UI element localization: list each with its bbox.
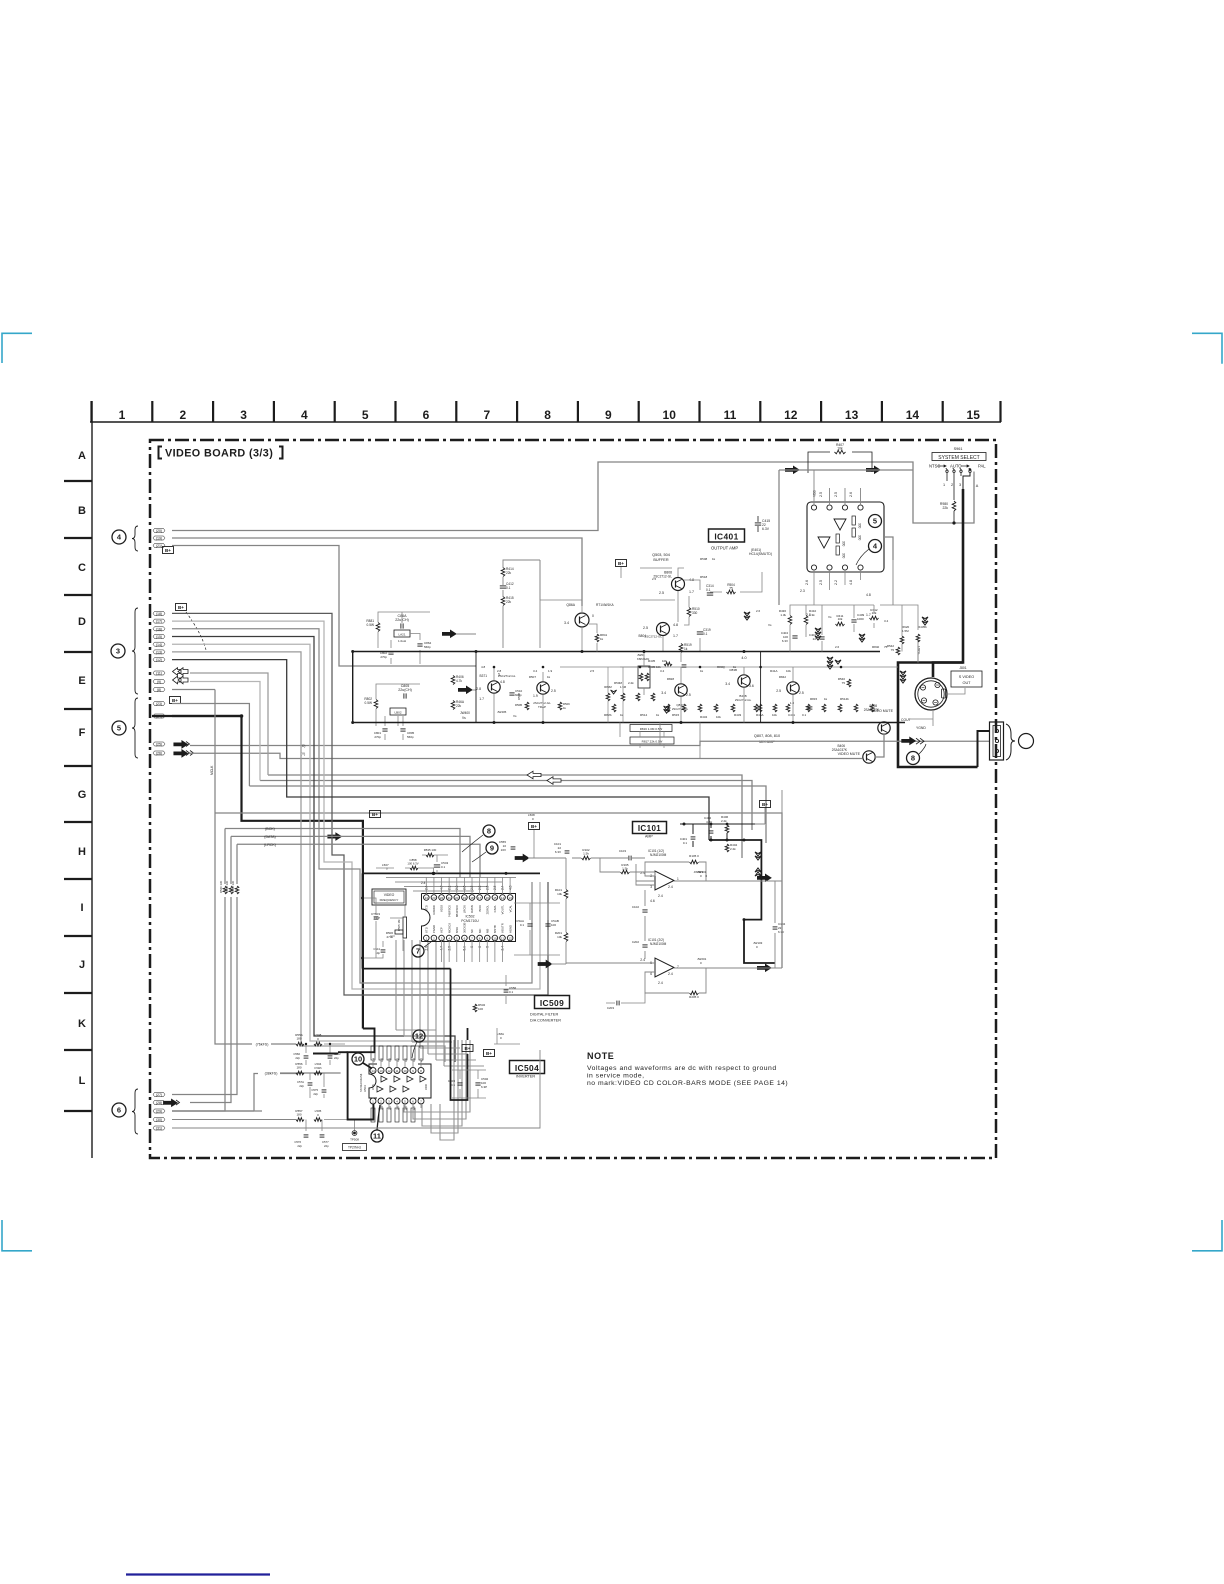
IC509 label box	[535, 996, 570, 1009]
node mark 4 at IC401	[869, 540, 882, 553]
svg-text:8: 8	[487, 827, 491, 836]
svg-text:1.9: 1.9	[548, 669, 553, 673]
svg-text:3.4: 3.4	[660, 669, 665, 673]
svg-text:F: F	[79, 727, 86, 739]
svg-text:24: 24	[425, 896, 429, 900]
svg-text:2.5: 2.5	[551, 689, 556, 693]
svg-text:D/A CONVERTER: D/A CONVERTER	[530, 1019, 561, 1023]
svg-text:B+: B+	[165, 548, 171, 553]
wire arrows run	[779, 469, 913, 471]
resistor R504 75	[727, 590, 736, 594]
svg-text:180: 180	[296, 1066, 301, 1070]
wire heavy right ic504 a	[451, 969, 468, 1100]
wire chain R414	[503, 560, 540, 648]
wire heavy right ic504 b	[467, 1028, 469, 1040]
svg-text:L: L	[79, 1075, 86, 1087]
IC504 inverter triangles	[381, 1076, 387, 1082]
svg-text:2SC2712-GL: 2SC2712-GL	[644, 635, 662, 639]
wire heavy into block	[978, 731, 990, 767]
svg-text:10k: 10k	[838, 617, 843, 621]
resistor R406 4.7k	[451, 676, 455, 685]
svg-text:5: 5	[873, 517, 877, 526]
svg-text:2.6: 2.6	[835, 645, 840, 649]
extra caps mix band	[808, 706, 813, 708]
svg-text:NC: NC	[470, 929, 474, 933]
svg-text:22p: 22p	[299, 1084, 304, 1088]
svg-text:BUFFER: BUFFER	[653, 558, 668, 562]
extra resistors row D right	[900, 636, 904, 644]
svg-text:VD03: VD03	[440, 905, 444, 912]
svg-text:2.4: 2.4	[658, 894, 663, 898]
svg-text:4.6: 4.6	[650, 899, 655, 903]
svg-text:TP508: TP508	[350, 1138, 359, 1142]
svg-text:2.4: 2.4	[668, 885, 673, 889]
svg-text:6.3V: 6.3V	[555, 850, 561, 854]
svg-text:B+: B+	[618, 561, 624, 566]
node mark 8 bottom	[907, 752, 920, 765]
chain R414 C412 R415	[501, 568, 505, 577]
capacitor C802 270p	[388, 651, 393, 653]
svg-text:NJM2100M: NJM2100M	[650, 853, 667, 857]
svg-text:VOUTL: VOUTL	[501, 905, 505, 915]
connector CN group 4	[112, 530, 126, 544]
svg-text:2.5: 2.5	[799, 691, 804, 695]
node mark 10	[352, 1053, 364, 1065]
svg-text:LRCKI: LRCKI	[463, 905, 467, 913]
signal arrow on data wire	[328, 833, 342, 841]
resistor R165 1.5k	[621, 870, 630, 874]
capacitor C555	[511, 846, 516, 848]
resistor R410 1.3k	[804, 616, 808, 625]
wire opamp2 loop	[566, 963, 756, 993]
svg-text:0: 0	[386, 867, 388, 871]
wire mid verticals ic101	[566, 858, 645, 964]
wire heavy zig to IC504	[348, 1029, 375, 1120]
title VIDEO BOARD (3/3)	[159, 447, 163, 459]
wire data	[231, 836, 470, 877]
svg-text:AUTO: AUTO	[950, 464, 962, 469]
svg-text:OUT: OUT	[962, 681, 971, 685]
IC504 top pin row	[370, 1068, 376, 1074]
svg-text:1.9: 1.9	[533, 694, 538, 698]
svg-text:(LRCK): (LRCK)	[264, 843, 276, 847]
svg-text:R507: R507	[529, 675, 537, 679]
svg-text:1k: 1k	[824, 697, 828, 701]
svg-text:8: 8	[420, 1069, 422, 1073]
svg-text:2.2: 2.2	[834, 580, 838, 585]
IC504 package outline	[369, 1064, 377, 1098]
svg-text:BCKI: BCKI	[478, 905, 482, 912]
signal arrow video in	[442, 630, 456, 638]
svg-text:3: 3	[441, 937, 443, 941]
svg-text:17: 17	[478, 896, 482, 900]
resistor R105 0	[690, 860, 699, 864]
svg-text:TRAP: TRAP	[538, 705, 546, 709]
svg-text:R41A: R41A	[770, 669, 778, 673]
svg-text:10k: 10k	[557, 935, 562, 939]
transistor Q804 buffer	[657, 623, 670, 636]
signal arrow chroma out	[902, 737, 916, 745]
svg-text:R550 130: R550 130	[225, 880, 229, 893]
svg-text:A: A	[976, 484, 979, 488]
svg-text:10k: 10k	[837, 447, 843, 451]
svg-text:1.8: 1.8	[790, 701, 795, 705]
svg-text:R50B: R50B	[517, 693, 521, 700]
svg-text:300: 300	[842, 541, 846, 547]
wire mid cluster	[790, 605, 874, 652]
svg-text:AGND: AGND	[508, 925, 512, 933]
svg-text:R551 130: R551 130	[231, 880, 235, 893]
svg-text:Vs: Vs	[768, 623, 772, 627]
wire pin20 to system select	[172, 462, 974, 531]
svg-text:9: 9	[412, 1069, 414, 1073]
svg-text:270p: 270p	[374, 735, 381, 739]
IC401 bottom pins	[811, 565, 816, 570]
svg-text:B+: B+	[531, 824, 537, 829]
external circle	[1019, 734, 1034, 749]
resistor R102 1.5k	[582, 856, 591, 860]
svg-text:6.3V: 6.3V	[762, 527, 770, 531]
svg-text:R434: R434	[700, 715, 708, 719]
wire R407 loop	[808, 452, 872, 473]
transistor Q808 buffer	[672, 578, 685, 591]
svg-text:1: 1	[425, 937, 427, 941]
svg-text:5: 5	[117, 724, 121, 733]
wire IC401 out right	[884, 537, 893, 560]
svg-text:R83Q: R83Q	[717, 665, 726, 669]
capacitor C319	[697, 631, 703, 633]
svg-text:B+: B+	[172, 698, 178, 703]
svg-text:D: D	[78, 616, 86, 628]
svg-text:B: B	[78, 505, 86, 517]
arrow left rail1	[527, 771, 541, 779]
svg-text:R508: R508	[700, 557, 708, 561]
capacitor C503	[457, 1082, 462, 1084]
svg-text:75: 75	[729, 587, 733, 591]
svg-text:560p: 560p	[424, 645, 431, 649]
svg-text:0.1: 0.1	[520, 923, 525, 927]
svg-text:2.2k: 2.2k	[730, 847, 736, 851]
svg-text:2SC2712-GL: 2SC2712-GL	[735, 698, 752, 702]
wire tp508 stub	[354, 1120, 356, 1131]
svg-text:0: 0	[700, 961, 702, 965]
svg-text:FREQUENCY: FREQUENCY	[380, 898, 399, 902]
svg-text:8B4FSC0: 8B4FSC0	[455, 905, 459, 918]
svg-text:9: 9	[605, 408, 612, 422]
wire loop descents below IC502	[396, 940, 484, 1066]
wire switch contact stubs	[946, 473, 948, 481]
wire ic101 input	[572, 858, 655, 876]
svg-text:R518: R518	[700, 575, 708, 579]
B+ supply above group3	[176, 604, 187, 611]
svg-text:4.8: 4.8	[481, 665, 486, 669]
svg-text:10k: 10k	[716, 715, 721, 719]
wire jw61	[620, 652, 658, 696]
svg-text:XT1I: XT1I	[425, 927, 429, 933]
components 38k row	[296, 1071, 304, 1075]
svg-text:R817 22k 0.5W: R817 22k 0.5W	[642, 739, 663, 743]
svg-text:2.5: 2.5	[819, 580, 823, 585]
resistor R560 130	[223, 886, 227, 894]
svg-text:(76kFS): (76kFS)	[256, 1043, 269, 1047]
IC401 pin drop wires	[814, 570, 861, 605]
resistor R881 0.5W	[376, 623, 380, 632]
svg-text:VDD: VDD	[424, 1084, 428, 1090]
wire pin11 run	[190, 673, 268, 775]
svg-text:R105 0: R105 0	[689, 854, 699, 858]
B+ supply near pin23	[170, 697, 181, 704]
svg-text:22: 22	[440, 896, 444, 900]
svg-text:0: 0	[317, 1113, 319, 1117]
wire lrck vertical from cn6	[172, 844, 237, 1094]
svg-text:0: 0	[532, 817, 534, 821]
IC502 bottom pin row	[424, 935, 430, 941]
svg-text:Q503, 504: Q503, 504	[652, 553, 670, 557]
top ruler ticks	[92, 401, 1001, 422]
capacitor C5AB 100	[545, 923, 550, 925]
wire data vertical from cn6	[190, 836, 231, 1102]
wire bck	[225, 829, 460, 878]
capacitor C409 1000	[851, 619, 856, 621]
svg-text:3: 3	[240, 408, 247, 422]
wire mix amp inner rail	[560, 666, 898, 668]
resistor R205 0	[690, 991, 699, 995]
svg-text:GSNN0: GSNN0	[432, 905, 436, 915]
signal arrow chroma in	[458, 686, 472, 694]
svg-text:2: 2	[380, 1100, 382, 1104]
svg-text:2.3: 2.3	[800, 589, 805, 593]
chevron big down2	[835, 660, 841, 664]
wire cn6 rows to parts	[172, 1119, 296, 1121]
svg-text:10: 10	[354, 1055, 362, 1064]
svg-text:22p: 22p	[295, 1056, 300, 1060]
svg-text:(DATA): (DATA)	[264, 835, 275, 839]
svg-text:RT1/4W1KA: RT1/4W1KA	[596, 603, 615, 607]
svg-text:1k: 1k	[547, 675, 551, 679]
svg-text:B371: B371	[480, 674, 488, 678]
svg-text:5: 5	[456, 937, 458, 941]
svg-text:2.2k: 2.2k	[721, 819, 727, 823]
svg-text:1.7: 1.7	[689, 590, 694, 594]
junction dots band2	[493, 666, 496, 669]
node mark 8 upper	[483, 825, 495, 837]
svg-text:R205 0: R205 0	[689, 995, 699, 999]
svg-text:R535 130: R535 130	[424, 848, 437, 852]
svg-text:10k: 10k	[557, 892, 562, 896]
emitter resistors	[698, 704, 702, 712]
node mark 7	[412, 945, 424, 957]
extra resistors mix band	[612, 704, 616, 712]
svg-text:J: J	[79, 959, 85, 971]
svg-text:MCKO3: MCKO3	[447, 923, 451, 933]
svg-text:13: 13	[379, 1069, 383, 1073]
resistor R802 0.5W	[374, 700, 378, 709]
wire heavy pin24 run	[172, 716, 363, 1029]
svg-text:15: 15	[493, 896, 497, 900]
svg-text:0: 0	[500, 1036, 502, 1040]
svg-text:4.0: 4.0	[741, 656, 746, 660]
svg-text:6.3V: 6.3V	[778, 930, 784, 934]
svg-text:R435: R435	[648, 659, 656, 663]
svg-text:2.3: 2.3	[806, 613, 811, 617]
svg-text:B+: B+	[178, 605, 184, 610]
svg-text:VIDEO MUTE: VIDEO MUTE	[838, 752, 861, 756]
svg-text:G: G	[78, 789, 87, 801]
IC504 label box	[510, 1061, 545, 1074]
resistor R436 1.3k	[788, 616, 792, 625]
svg-text:E: E	[78, 675, 85, 687]
svg-text:2SC2712-GL: 2SC2712-GL	[653, 575, 672, 579]
wire 76k feed	[215, 813, 296, 1044]
svg-text:JW201: JW201	[697, 957, 707, 961]
svg-text:1.5k: 1.5k	[622, 867, 628, 871]
svg-text:H: H	[78, 846, 86, 858]
resistor R510 330	[687, 608, 691, 617]
capacitor C864 560p	[417, 643, 422, 645]
svg-text:1k: 1k	[684, 647, 688, 651]
transistor Q86A dc restore	[575, 613, 589, 627]
svg-text:0.5W1: 0.5W1	[314, 1066, 322, 1070]
wire switch pal contact heavy	[963, 473, 970, 489]
svg-text:3: 3	[388, 1100, 390, 1104]
svg-text:1k: 1k	[563, 706, 567, 710]
svg-text:R515: R515	[672, 713, 680, 717]
svg-text:3.4: 3.4	[661, 691, 666, 695]
resistor R980 22k	[952, 501, 956, 511]
svg-text:2: 2	[951, 483, 953, 487]
svg-text:R514: R514	[640, 713, 648, 717]
svg-text:R816 1.0M 0.5W: R816 1.0M 0.5W	[640, 727, 663, 731]
capacitor C102	[642, 909, 647, 911]
wire mix amp partition	[475, 652, 477, 723]
svg-text:K: K	[78, 1018, 86, 1030]
svg-text:2.5: 2.5	[834, 492, 838, 497]
svg-text:6: 6	[412, 1100, 414, 1104]
svg-text:JW405: JW405	[497, 710, 507, 714]
svg-text:180: 180	[296, 1037, 301, 1041]
inductor LA21 box	[394, 630, 410, 637]
svg-text:6.3V: 6.3V	[782, 639, 788, 643]
capacitor C202	[642, 944, 647, 946]
wire pin23 run	[172, 704, 249, 787]
svg-text:R50B: R50B	[515, 703, 522, 707]
svg-text:75: 75	[891, 648, 895, 652]
svg-text:3: 3	[650, 885, 652, 889]
svg-text:ZEROL: ZEROL	[485, 905, 489, 915]
svg-text:2.5: 2.5	[776, 689, 781, 693]
svg-text:PCM1710U: PCM1710U	[461, 919, 479, 923]
IC401 package outline	[807, 502, 884, 572]
svg-text:IC401: IC401	[714, 531, 738, 541]
svg-text:0.1: 0.1	[506, 586, 511, 590]
svg-text:0.1: 0.1	[683, 841, 688, 845]
svg-text:C202: C202	[632, 940, 640, 944]
svg-text:4: 4	[873, 542, 878, 551]
junction dots rails	[351, 650, 354, 653]
svg-text:INVERTER: INVERTER	[516, 1075, 535, 1079]
values IC401 bottom	[800, 589, 871, 617]
svg-text:8: 8	[544, 408, 551, 422]
resistor R509	[558, 702, 562, 710]
svg-text:0.5W: 0.5W	[367, 623, 374, 627]
inductor LB02 box	[390, 708, 406, 715]
svg-text:10: 10	[663, 408, 677, 422]
capacitor C502	[475, 1082, 480, 1084]
svg-text:12: 12	[508, 937, 512, 941]
arrow flag pin25	[174, 741, 188, 749]
svg-text:1: 1	[677, 877, 679, 881]
capacitor C801 270p	[382, 728, 387, 730]
svg-text:MCLK: MCLK	[210, 765, 214, 775]
IC401 label box	[709, 529, 745, 542]
wire right bus ic101	[775, 790, 782, 968]
wire heavy left edge IC502	[362, 873, 364, 968]
svg-text:22p: 22p	[313, 1092, 318, 1096]
svg-text:10k: 10k	[786, 669, 791, 673]
wire bck vertical from cn6	[172, 829, 225, 1112]
wire buffer top rail	[640, 568, 684, 577]
IC504 voltage boxes bottom	[371, 1108, 375, 1122]
svg-text:1k: 1k	[700, 669, 704, 673]
svg-text:Vs: Vs	[513, 714, 517, 718]
svg-text:(BCK): (BCK)	[265, 827, 275, 831]
svg-text:1.5M: 1.5M	[902, 629, 909, 633]
svg-text:R50M: R50M	[614, 681, 623, 685]
svg-text:330: 330	[692, 611, 698, 615]
IC502 package outline	[422, 894, 516, 942]
wire power cluster	[680, 824, 755, 847]
wire j801 stub	[947, 688, 965, 694]
svg-text:2.5: 2.5	[686, 693, 691, 697]
svg-text:C103: C103	[619, 849, 627, 853]
svg-text:12: 12	[387, 1069, 391, 1073]
B plus ic101	[760, 801, 771, 808]
resistor R540 75	[847, 679, 851, 687]
wire pin19 long run	[172, 538, 582, 606]
svg-text:74BFSC0: 74BFSC0	[447, 905, 451, 918]
svg-text:8: 8	[911, 754, 915, 763]
resistor R411 10k	[836, 622, 845, 626]
svg-text:no mark:VIDEO CD COLOR-BARS MO: no mark:VIDEO CD COLOR-BARS MODE (SEE PA…	[587, 1080, 788, 1087]
svg-text:MB: MB	[485, 929, 489, 933]
svg-text:3: 3	[116, 647, 120, 656]
svg-text:IC509: IC509	[540, 998, 564, 1008]
svg-text:PGND: PGND	[432, 925, 436, 933]
resistor R550 130	[229, 886, 233, 894]
svg-text:6: 6	[650, 972, 652, 976]
svg-text:2.4: 2.4	[640, 958, 645, 962]
svg-text:7: 7	[471, 937, 473, 941]
svg-text:1000: 1000	[857, 617, 864, 621]
wire pin12 heavy run	[172, 660, 709, 840]
svg-text:4.8: 4.8	[866, 593, 871, 597]
svg-text:JW400: JW400	[460, 711, 470, 715]
svg-text:6: 6	[117, 1106, 121, 1115]
svg-text:100: 100	[551, 923, 556, 927]
svg-text:CAPL: CAPL	[493, 905, 497, 913]
svg-text:300: 300	[842, 553, 846, 559]
svg-text:22u(CH): 22u(CH)	[398, 688, 412, 692]
svg-text:14: 14	[906, 408, 920, 422]
chevron big down1	[900, 671, 906, 675]
svg-text:14: 14	[501, 896, 505, 900]
resistor network mix row	[606, 693, 610, 701]
wire xtal cluster	[363, 898, 406, 958]
wire heavy select line	[898, 489, 978, 767]
wire heavy branch yout	[933, 663, 963, 678]
B plus right col	[484, 1050, 495, 1057]
wire q86a top link	[540, 560, 675, 600]
